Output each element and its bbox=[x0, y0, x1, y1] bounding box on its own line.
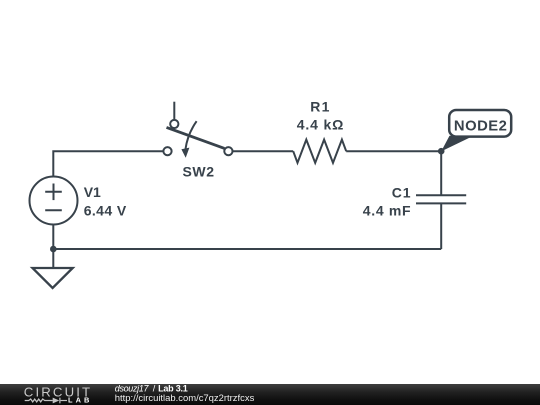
wire bbox=[440, 151, 442, 195]
voltage source V1 bbox=[30, 177, 78, 225]
wire bbox=[52, 225, 54, 269]
footer bar bbox=[0, 384, 540, 405]
wire bbox=[346, 150, 441, 152]
capacitor C1 bbox=[416, 195, 466, 203]
svg-text:NODE2: NODE2 bbox=[454, 119, 507, 135]
node NODE2 flag box bbox=[449, 110, 511, 137]
wire bbox=[440, 203, 442, 249]
node junction dot at NODE2 bbox=[438, 148, 445, 155]
svg-text:V1: V1 bbox=[84, 184, 101, 200]
svg-text:4.4 mF: 4.4 mF bbox=[363, 202, 411, 218]
svg-text:R1: R1 bbox=[310, 98, 329, 114]
CircuitLab logo resistor-diode squiggle bbox=[25, 398, 67, 404]
node junction dot at V1 bottom bbox=[50, 246, 57, 253]
ground bbox=[33, 268, 73, 288]
svg-text:LAB: LAB bbox=[68, 395, 89, 404]
node NODE2 flag pointer bbox=[441, 136, 471, 152]
switch SW2 bbox=[163, 120, 232, 158]
svg-text:http://circuitlab.com/c7qz2rtr: http://circuitlab.com/c7qz2rtrzfcxs bbox=[115, 393, 255, 403]
wire bbox=[173, 102, 175, 119]
svg-text:C1: C1 bbox=[392, 184, 411, 200]
wire bbox=[53, 248, 441, 250]
resistor R1 bbox=[293, 140, 346, 163]
wire bbox=[53, 151, 162, 177]
wire bbox=[233, 150, 294, 152]
svg-text:4.4 kΩ: 4.4 kΩ bbox=[297, 117, 344, 133]
CircuitLab logo diode triangle bbox=[53, 398, 60, 404]
svg-text:6.44 V: 6.44 V bbox=[84, 202, 127, 218]
svg-text:SW2: SW2 bbox=[183, 163, 215, 179]
